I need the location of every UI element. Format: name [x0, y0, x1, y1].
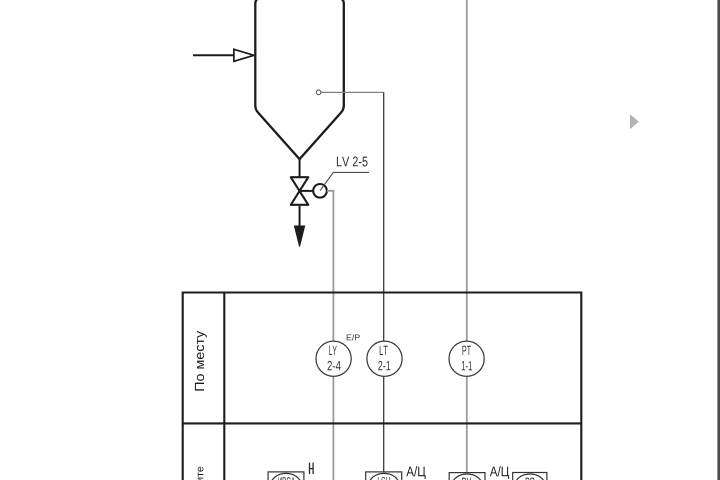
table row divider	[183, 422, 582, 424]
panel housing rect	[268, 472, 304, 480]
table top border	[183, 291, 582, 293]
LT impulse wire vertical	[383, 92, 385, 341]
instrument LIRSA (bottom row, clipped)	[268, 472, 304, 480]
instrument PT 1-1	[449, 341, 484, 376]
PT impulse wire	[466, 0, 468, 342]
number text 2-4	[327, 361, 340, 370]
inlet arrow	[234, 49, 254, 61]
wire LT to bottom row	[383, 377, 385, 475]
label LV 2-5	[337, 157, 368, 167]
table label column divider	[223, 292, 225, 480]
tag text LY	[329, 346, 337, 355]
row label: На щите (partially visible)	[196, 467, 205, 480]
actuator circle	[313, 184, 327, 198]
tag text LT	[380, 346, 388, 355]
viewer scroll arrow	[630, 114, 639, 129]
tank outlet stub wire	[299, 159, 301, 178]
instrument PY (bottom row, clipped)	[449, 473, 485, 480]
label А/Ц (1)	[406, 466, 425, 479]
tap wire horizontal	[321, 91, 384, 93]
label leader line	[320, 172, 369, 190]
tap node circle	[316, 90, 321, 95]
instrument LSH (bottom row, clipped)	[366, 472, 402, 480]
tank T1	[255, 0, 343, 159]
balloon circle LY	[316, 341, 351, 376]
number text 1-1	[462, 361, 472, 370]
tag text ИРСА	[278, 477, 295, 480]
valve stem wire	[300, 190, 314, 192]
label E/P	[347, 334, 360, 340]
tag text PT	[462, 346, 470, 355]
tag text PY	[462, 478, 471, 480]
signal table frame	[183, 292, 582, 480]
label H	[310, 463, 314, 475]
panel housing rect	[513, 473, 547, 480]
balloon ellipse	[271, 473, 301, 480]
inlet wire	[193, 54, 235, 56]
panel housing rect	[366, 472, 402, 480]
instrument LY 2-4	[316, 341, 351, 376]
viewer right edge	[717, 0, 720, 480]
LY signal wire continues below	[332, 377, 334, 480]
balloon ellipse	[369, 473, 399, 480]
instrument LT 2-1	[367, 341, 402, 376]
outlet arrow	[294, 226, 304, 247]
PT wire to bottom row	[466, 377, 468, 475]
balloon circle PT	[449, 341, 484, 376]
balloon ellipse	[515, 474, 545, 480]
panel housing rect	[449, 473, 485, 480]
table right border	[580, 292, 582, 480]
outlet wire	[299, 206, 301, 227]
valve LV body	[291, 177, 309, 205]
balloon ellipse	[452, 474, 482, 480]
instrument PR (bottom row, clipped)	[513, 473, 547, 480]
row label: По месту	[195, 331, 207, 391]
table left border	[182, 292, 184, 480]
label А/Ц (2)	[490, 466, 509, 479]
LV signal wire (actuator to LY)	[327, 191, 334, 342]
tag text LSH	[378, 477, 390, 480]
number text 2-1	[378, 361, 390, 370]
balloon circle LT	[367, 341, 402, 376]
tag text PR	[526, 478, 535, 480]
